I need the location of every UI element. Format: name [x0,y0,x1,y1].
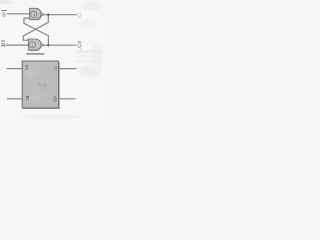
node Q-bar output label [77,42,81,50]
gate U1 output bubble [41,13,43,15]
svg-text:S: S [2,12,6,18]
svg-text:R: R [1,43,5,49]
wire R-bar to gate 2 input [6,44,28,46]
pin S-bar wire left [7,68,23,70]
gate U2 shadow [29,40,41,51]
gate U1 shadow [31,9,43,20]
junction node B dot [47,44,49,46]
junction node A dot [47,14,49,16]
op-amp gate U1 NAND body [30,8,42,19]
gate U2 output bubble [41,44,43,46]
wire diagonal from gate 1 output down to gate 2 input [23,22,48,40]
svg-text:Q: Q [77,44,81,50]
svg-text:Q: Q [54,65,58,70]
wire diagonal from gate 2 output up to gate 1 input [24,23,48,45]
node S-bar input label [2,12,6,18]
wire vertical from gate 1 output junction down [47,15,49,23]
wire feedback stub into gate 1 lower input [24,18,30,23]
overline of S-bar [2,10,6,12]
svg-text:S: S [25,65,28,70]
gate U1 number circle 1 [31,11,37,17]
flip-flop block U3 shadow [23,62,60,109]
paper background [0,0,103,120]
pin label S-bar inside block [25,65,28,70]
pin label Q-bar inside block [53,97,57,102]
pin Q wire right [59,68,77,70]
pin Q-bar wire right [59,98,76,100]
wire S-bar to gate 1 input [7,13,29,15]
flip-flop block U3 body R-S [22,61,58,108]
stray ink bar artifact above block [26,53,44,54]
svg-text:Q: Q [53,97,57,102]
node R-bar input label [1,41,5,49]
wire feedback stub into gate 2 upper input [23,39,28,41]
pin R-bar wire left [7,98,22,100]
pin label R-bar inside block [26,96,30,101]
wire gate 2 output to Q-bar [43,44,76,46]
op-amp gate U2 NAND body [28,39,41,50]
svg-text:R-S: R-S [38,83,47,89]
wire gate 1 output to Q [43,14,76,16]
svg-text:Q: Q [77,13,81,19]
gate U2 number circle 2 [29,42,35,48]
